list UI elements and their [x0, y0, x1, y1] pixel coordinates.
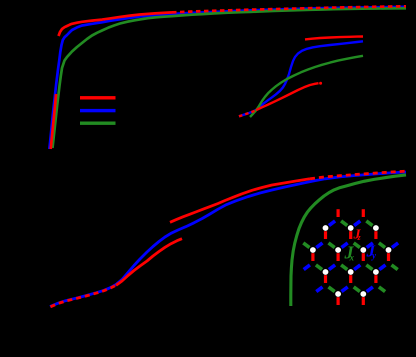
svg-text:Jz: Jz [353, 228, 362, 243]
top panel green curve [53, 8, 407, 148]
bottom panel green curve [291, 175, 406, 306]
inset blue curve [239, 41, 363, 116]
bottom panel blue curve [50, 172, 406, 307]
inset red curve upper branch [305, 37, 363, 40]
bottom panel red curve lower branch overlap part (alternating) [51, 285, 117, 307]
honeycomb y-bonds (blue) [304, 221, 398, 292]
honeycomb z-bonds (red) [313, 209, 389, 305]
inset green curve [250, 56, 363, 117]
inset red curve tail overlap (alternating) [239, 110, 256, 116]
top panel blue curve [49, 7, 406, 149]
bottom panel red curve lower branch separated part [116, 239, 182, 286]
legend blue line [80, 109, 116, 112]
honeycomb x-bonds (green) [303, 221, 397, 292]
honeycomb lattice sites (white circles) [310, 225, 391, 297]
bottom panel red curve upper branch separated part [170, 179, 310, 223]
top panel red curve lower branch [51, 94, 56, 149]
legend green line [80, 122, 116, 125]
top panel red curve upper branch overlap part (alternating) [172, 6, 406, 12]
bottom panel red curve upper branch overlap part (alternating) [310, 171, 406, 179]
inset red curve lower branch [256, 83, 319, 110]
inset red curve end dot [319, 82, 322, 85]
svg-text:Jx: Jx [344, 243, 355, 263]
legend red line [80, 96, 116, 99]
top panel red curve upper branch solid part [59, 12, 173, 36]
